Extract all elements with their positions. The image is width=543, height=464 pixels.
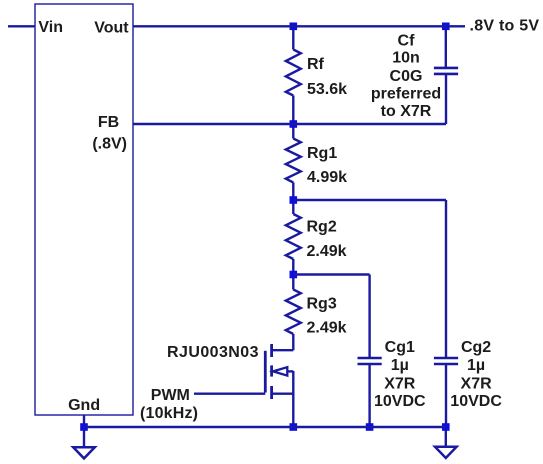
svg-text:Cg2: Cg2: [461, 339, 491, 356]
svg-text:Rg3: Rg3: [307, 296, 337, 313]
svg-text:C0G: C0G: [390, 68, 423, 85]
svg-text:10n: 10n: [392, 50, 420, 67]
svg-text:2.49k: 2.49k: [307, 320, 347, 337]
svg-text:preferred: preferred: [371, 86, 441, 103]
svg-text:Vout: Vout: [94, 19, 129, 36]
svg-text:Vin: Vin: [38, 19, 63, 36]
svg-text:Gnd: Gnd: [68, 397, 100, 414]
svg-text:(10kHz): (10kHz): [140, 405, 198, 422]
svg-text:Cf: Cf: [398, 32, 416, 49]
svg-text:53.6k: 53.6k: [307, 81, 347, 98]
svg-text:Cg1: Cg1: [385, 339, 415, 356]
svg-text:X7R: X7R: [461, 375, 493, 392]
svg-text:RJU003N03: RJU003N03: [167, 344, 259, 361]
svg-text:1µ: 1µ: [467, 357, 485, 374]
svg-text:X7R: X7R: [384, 375, 416, 392]
svg-text:4.99k: 4.99k: [307, 169, 347, 186]
svg-text:to X7R: to X7R: [381, 103, 432, 120]
svg-text:2.49k: 2.49k: [307, 243, 347, 260]
svg-text:Rf: Rf: [307, 56, 325, 73]
svg-text:Rg2: Rg2: [307, 219, 337, 236]
svg-text:FB: FB: [98, 114, 119, 131]
svg-text:.8V to 5V: .8V to 5V: [470, 18, 540, 35]
svg-text:(.8V): (.8V): [92, 135, 127, 152]
svg-text:PWM: PWM: [151, 387, 190, 404]
svg-text:10VDC: 10VDC: [450, 393, 502, 410]
svg-text:10VDC: 10VDC: [374, 393, 426, 410]
svg-text:Rg1: Rg1: [307, 145, 337, 162]
svg-text:1µ: 1µ: [391, 357, 409, 374]
